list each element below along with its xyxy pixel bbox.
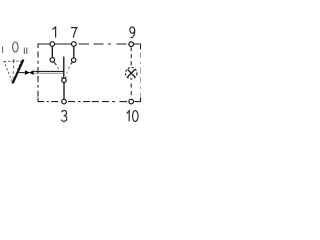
contact circle under terminal 7 bbox=[72, 58, 76, 62]
wire terminal 7 to contact bbox=[73, 46, 75, 58]
terminal 7 circle bbox=[72, 42, 77, 47]
terminal label 10 bbox=[127, 111, 138, 122]
actuator lever bbox=[12, 60, 24, 84]
position label 0 bbox=[13, 42, 18, 52]
wire lamp to terminal 10 (dashed) bbox=[130, 81, 132, 99]
switch blade position II (dashed to contact 7) bbox=[65, 62, 72, 79]
position label I bbox=[2, 47, 3, 54]
terminal 9 circle bbox=[129, 42, 134, 47]
lamp L1 cross bbox=[128, 70, 135, 77]
terminal 1 circle bbox=[50, 42, 55, 47]
pivot contact circle bbox=[62, 78, 66, 82]
terminal 3 circle bbox=[62, 99, 67, 104]
switch blade position I (dashed to contact 1) bbox=[54, 62, 63, 79]
terminal label 9 bbox=[130, 27, 135, 38]
contact circle under terminal 1 bbox=[50, 58, 54, 62]
position label II bbox=[24, 48, 28, 55]
bowtie arrowheads bbox=[25, 70, 34, 75]
lamp L1 dashed circle bbox=[126, 68, 137, 79]
enclosure left edge bbox=[37, 52, 39, 97]
enclosure top edge bbox=[38, 44, 141, 50]
enclosure bottom edge bbox=[38, 98, 141, 102]
actuator triangle (dashed) bbox=[4, 61, 21, 83]
wire terminal 9 to lamp (dashed) bbox=[130, 47, 132, 67]
terminal label 7 bbox=[71, 28, 77, 38]
terminal 10 circle bbox=[129, 99, 134, 104]
mechanical link line (left single segment) bbox=[17, 72, 25, 74]
mechanical link double line bbox=[34, 71, 64, 73]
switch blade neutral (solid vertical) bbox=[63, 57, 65, 79]
terminal label 1 bbox=[52, 27, 55, 38]
actuator neutral dashed centerline bbox=[12, 59, 15, 80]
enclosure right edge bbox=[140, 53, 142, 98]
terminal label 3 bbox=[61, 111, 66, 122]
wire terminal 1 to contact bbox=[51, 46, 53, 58]
wire pivot to terminal 3 bbox=[63, 83, 65, 100]
